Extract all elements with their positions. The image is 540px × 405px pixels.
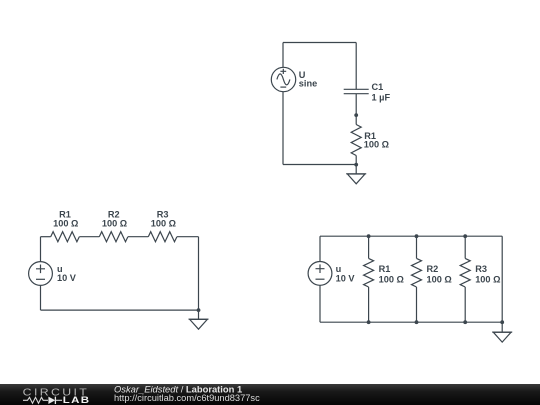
svg-text:LAB: LAB (63, 395, 91, 405)
svg-text:R1: R1 (379, 264, 391, 274)
wire: ground stem (series circuit) (198, 310, 200, 319)
voltage source U (sine) (271, 67, 295, 91)
node: bottom junction (top circuit) (354, 163, 358, 167)
wire: series circuit, top-right segment (177, 236, 199, 238)
wire: series circuit, left vertical above source (40, 237, 42, 262)
wire: parallel circuit, left vertical above source (319, 236, 321, 261)
svg-text:R3: R3 (475, 264, 487, 274)
wire: resistor to ground (355, 156, 357, 174)
logo: diode (48, 397, 55, 404)
wire: top circuit, right vertical to capacitor (355, 43, 357, 90)
wire: parallel circuit, R3 column top lead (464, 236, 466, 258)
wire: parallel circuit, R1 column bottom lead (368, 287, 370, 322)
node: R3 top junction (463, 234, 467, 238)
resistor R1 (parallel circuit) (364, 258, 374, 287)
wire: series circuit, R2-R3 segment (128, 236, 148, 238)
wire: parallel circuit, bottom rail (320, 321, 502, 323)
logo: resistor zigzag (23, 397, 48, 403)
voltage source u 10V (parallel circuit) (308, 262, 332, 286)
wire: series circuit, top-left segment (41, 236, 51, 238)
wire: series circuit, right vertical (198, 237, 200, 310)
svg-text:100 Ω: 100 Ω (427, 274, 452, 284)
node: cap-resistor junction (354, 113, 358, 117)
svg-text:100 Ω: 100 Ω (151, 219, 176, 229)
svg-text:100 Ω: 100 Ω (53, 219, 78, 229)
node: series circuit ground junction (197, 308, 201, 312)
resistor R3 (parallel circuit) (460, 258, 470, 287)
resistor R2 (series circuit) (99, 232, 128, 242)
svg-text:10 V: 10 V (57, 273, 77, 283)
svg-text:sine: sine (299, 78, 317, 88)
wire: top circuit, bottom horizontal (283, 164, 356, 166)
svg-text:100 Ω: 100 Ω (364, 140, 389, 150)
wire: top circuit, top horizontal (283, 42, 356, 44)
ground (top circuit) (346, 174, 366, 184)
svg-text:http://circuitlab.com/c6t9und8: http://circuitlab.com/c6t9und8377sc (114, 393, 260, 403)
wire: capacitor to resistor R1 (355, 94, 357, 125)
node: R2 bottom junction (415, 320, 419, 324)
wire: parallel circuit, R2 column bottom lead (416, 287, 418, 322)
wire: series circuit, bottom horizontal (41, 309, 199, 311)
svg-text:C1: C1 (372, 82, 384, 92)
node: R2 top junction (415, 234, 419, 238)
svg-text:R2: R2 (427, 264, 439, 274)
wire: top circuit, left vertical above source (282, 43, 284, 68)
wire: parallel circuit, R3 column bottom lead (464, 287, 466, 322)
wire: parallel circuit, right vertical (501, 236, 503, 322)
resistor R1 (top circuit, vertical) (351, 125, 361, 156)
node: R3 bottom junction (463, 320, 467, 324)
capacitor C1 (344, 89, 369, 93)
wire: series circuit, R1-R2 segment (79, 236, 99, 238)
resistor R1 (series circuit) (51, 232, 80, 242)
wire: parallel circuit, R2 column top lead (416, 236, 418, 258)
wire: parallel circuit, left vertical below source (319, 285, 321, 322)
svg-text:10 V: 10 V (336, 273, 356, 283)
resistor R3 (series circuit) (148, 232, 177, 242)
wire: parallel circuit, R1 column top lead (368, 236, 370, 258)
wire: ground stem (parallel circuit) (501, 322, 503, 332)
resistor R2 (parallel circuit) (412, 258, 422, 287)
ground (series circuit) (189, 319, 209, 329)
svg-text:1 µF: 1 µF (372, 92, 391, 102)
ground (parallel circuit) (492, 332, 512, 342)
wire: parallel circuit, top rail (320, 235, 502, 237)
wire: top circuit, left vertical below source (282, 92, 284, 165)
node: R1 bottom junction (367, 320, 371, 324)
wire: series circuit, left vertical below source (40, 285, 42, 310)
node: parallel circuit ground junction (500, 320, 504, 324)
node: R1 top junction (367, 234, 371, 238)
voltage source u 10V (series circuit) (29, 262, 53, 286)
svg-text:100 Ω: 100 Ω (379, 274, 404, 284)
svg-text:100 Ω: 100 Ω (102, 219, 127, 229)
svg-text:100 Ω: 100 Ω (475, 274, 500, 284)
